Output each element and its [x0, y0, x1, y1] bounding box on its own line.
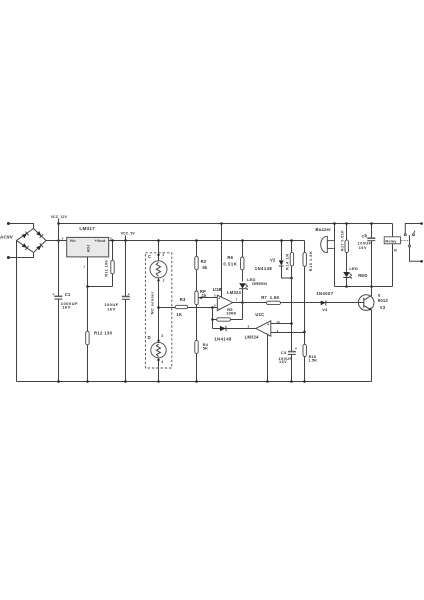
svg-text:+: + [295, 347, 297, 351]
svg-text:GREEN: GREEN [252, 281, 267, 286]
resistor R12 130 [86, 287, 113, 383]
resistor R4 5K [195, 305, 209, 383]
svg-text:C4: C4 [362, 233, 368, 238]
svg-text:Relay: Relay [385, 240, 397, 244]
svg-text:R11 100: R11 100 [105, 260, 109, 277]
node VCC_12V [51, 215, 68, 225]
svg-text:R2: R2 [201, 259, 207, 264]
svg-text:+: + [52, 292, 54, 296]
svg-text:R6: R6 [227, 255, 233, 260]
svg-text:U1C: U1C [255, 312, 264, 317]
svg-text:VCC_12V: VCC_12V [51, 215, 68, 219]
svg-text:ADJ: ADJ [87, 245, 91, 253]
svg-text:8: 8 [248, 324, 250, 328]
svg-text:K: K [394, 248, 397, 253]
svg-text:100UF: 100UF [358, 241, 372, 245]
svg-text:2: 2 [163, 279, 165, 283]
svg-text:100K: 100K [226, 311, 236, 316]
regulator U LM317 [62, 226, 112, 268]
svg-text:1k: 1k [202, 293, 208, 298]
svg-text:+Vout: +Vout [95, 239, 106, 243]
sensor C thermistor [148, 239, 167, 342]
svg-text:3: 3 [161, 334, 163, 338]
resistor R16 1.5K [303, 332, 317, 383]
sensor D thermistor [148, 334, 167, 383]
wire bridge plus to LM317 Vin [46, 224, 67, 242]
capacitor C2 100UF 16V [104, 241, 130, 383]
svg-text:0.51K: 0.51K [223, 261, 237, 266]
svg-text:R17 0.51K: R17 0.51K [340, 230, 344, 251]
svg-text:3: 3 [62, 237, 64, 241]
svg-text:1N4148: 1N4148 [214, 337, 232, 342]
svg-text:4: 4 [161, 360, 163, 364]
wire VCC_12V top rail [59, 223, 393, 225]
wire VCC_5V rail [109, 240, 305, 242]
svg-text:R15 1.5K: R15 1.5K [309, 251, 313, 271]
svg-text:D: D [148, 335, 151, 340]
svg-text:RED: RED [358, 273, 367, 278]
diode 1N4148 wired-OR [213, 320, 256, 342]
svg-text:1: 1 [83, 265, 85, 269]
diode V2 1N4148 [255, 239, 292, 278]
resistor R14 1R [286, 239, 294, 279]
resistor R2 5k [195, 239, 208, 291]
svg-text:5K: 5K [203, 345, 208, 350]
node VCC_5V [121, 232, 136, 242]
op-amp U1C LM324 [245, 312, 305, 383]
wire bridge minus to ground [16, 241, 18, 382]
svg-text:LED: LED [349, 266, 358, 271]
resistor R6 0.51K [223, 239, 244, 281]
relay K coil [384, 224, 408, 287]
resistor R7 1.5K [243, 295, 364, 304]
svg-text:R12 130: R12 130 [94, 331, 113, 336]
capacitor C3 100UF 16V [278, 347, 297, 383]
wire ground bottom rail [17, 381, 372, 383]
svg-text:NC sensor: NC sensor [150, 291, 154, 314]
svg-text:U1B: U1B [213, 287, 222, 292]
diode V4 1N4007 [316, 291, 334, 312]
svg-text:1K: 1K [176, 312, 182, 317]
svg-text:5k: 5k [202, 265, 208, 270]
svg-text:VCC_5V: VCC_5V [121, 232, 136, 236]
svg-text:LM317: LM317 [79, 226, 95, 231]
svg-text:C: C [148, 254, 151, 259]
node AC input terminal 2 [0, 235, 34, 259]
svg-text:5: 5 [214, 293, 216, 297]
wire LM317 ADJ [86, 257, 112, 288]
svg-text:R3: R3 [180, 297, 186, 302]
capacitor C4 100UF 16V [358, 222, 376, 288]
svg-text:+: + [128, 293, 130, 297]
svg-text:1.5K: 1.5K [308, 357, 317, 362]
svg-text:1.5K: 1.5K [270, 295, 280, 300]
svg-text:LM324: LM324 [227, 290, 242, 295]
resistor R3 1K [157, 297, 217, 317]
svg-text:1N4007: 1N4007 [316, 291, 334, 296]
svg-text:16V: 16V [279, 360, 287, 364]
svg-text:1N4148: 1N4148 [255, 266, 273, 271]
wire collector line [335, 286, 393, 288]
capacitor C1 1000UF 16V [52, 241, 78, 383]
svg-text:16V: 16V [359, 246, 367, 250]
LED green [239, 277, 267, 302]
svg-text:V3: V3 [380, 305, 386, 310]
svg-text:1: 1 [162, 253, 164, 257]
diode bridge rectifier [17, 229, 47, 253]
svg-text:16V: 16V [107, 306, 116, 311]
resistor R5 100K feedback [211, 303, 242, 322]
relay contacts [404, 222, 423, 262]
resistor R11 100 [105, 239, 115, 286]
transistor V3 9013 [358, 287, 388, 382]
svg-text:7: 7 [236, 298, 238, 302]
svg-text:R7: R7 [261, 295, 267, 300]
svg-text:LM324: LM324 [245, 334, 260, 339]
svg-text:9013: 9013 [378, 298, 389, 303]
sensor dashed box NC sensor [145, 253, 171, 368]
svg-text:R14 1R: R14 1R [286, 253, 290, 270]
node AC input terminal 1 [7, 222, 34, 229]
svg-text:Buzzer: Buzzer [315, 227, 331, 232]
LED red [343, 266, 367, 288]
op-amp U1B LM324 [211, 222, 244, 310]
resistor R17 0.51K [340, 222, 348, 272]
potentiometer RP 1k [195, 289, 218, 305]
wire reference node to U1C+ [290, 278, 293, 352]
svg-text:6: 6 [214, 304, 216, 308]
svg-text:C3: C3 [281, 350, 287, 355]
svg-text:V2: V2 [270, 257, 276, 262]
svg-text:AC9V: AC9V [0, 235, 14, 240]
svg-text:Vin: Vin [70, 239, 76, 243]
svg-text:V4: V4 [322, 307, 328, 312]
buzzer [315, 222, 335, 286]
svg-text:16V: 16V [62, 304, 71, 309]
svg-text:C1: C1 [65, 292, 71, 297]
resistor R15 1.5K [303, 241, 313, 334]
